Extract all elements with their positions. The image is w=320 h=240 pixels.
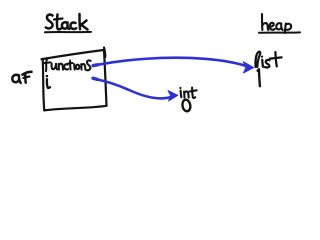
- blue arrow to int (from i row): [93, 78, 178, 101]
- stack frame box: [42, 48, 107, 111]
- text 1: [258, 69, 260, 86]
- text int: [181, 88, 197, 98]
- text functions (inside box): [44, 58, 90, 71]
- text i (inside box): [47, 79, 50, 88]
- text list: [255, 52, 281, 68]
- text 0: [182, 99, 192, 112]
- underline under Stack: [45, 31, 91, 33]
- title Stack: [46, 14, 88, 30]
- title heap: [262, 14, 291, 33]
- label a.F (left of box): [12, 72, 31, 83]
- underline under heap: [259, 31, 300, 33]
- blue arrow to list (from functions row): [93, 58, 253, 73]
